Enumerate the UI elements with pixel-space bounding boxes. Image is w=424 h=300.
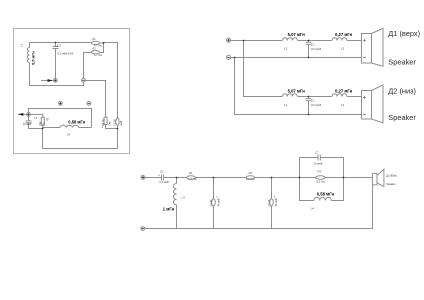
svg-text:L3: L3 (182, 196, 186, 200)
svg-text:L1: L1 (284, 103, 288, 107)
svg-text:Ом: Ом (39, 121, 42, 125)
svg-text:С3: С3 (57, 43, 61, 47)
svg-text:40 мкФ: 40 мкФ (274, 198, 278, 206)
svg-text:4,7 Ом: 4,7 Ом (94, 54, 102, 57)
svg-text:0,58 мГн: 0,58 мГн (317, 191, 335, 196)
svg-text:С3 40: С3 40 (267, 199, 271, 206)
svg-text:0,27 мГн: 0,27 мГн (335, 89, 353, 94)
svg-text:L4: L4 (311, 207, 315, 211)
svg-text:С1: С1 (311, 42, 315, 46)
svg-text:L2: L2 (341, 103, 345, 107)
svg-text:С7: С7 (315, 151, 319, 155)
svg-text:0,5 мГн: 0,5 мГн (32, 51, 36, 65)
svg-text:С5 20: С5 20 (113, 119, 117, 126)
svg-text:Д1 (верх): Д1 (верх) (388, 29, 420, 38)
svg-text:L2: L2 (341, 46, 345, 50)
svg-text:Ом: Ом (108, 122, 112, 126)
svg-text:С7: С7 (34, 116, 38, 120)
svg-text:3,9 Ом: 3,9 Ом (246, 177, 255, 181)
svg-text:13,3 мкФ: 13,3 мкФ (311, 47, 322, 51)
svg-text:10 мкФ: 10 мкФ (314, 162, 323, 166)
svg-text:4,7 Ом: 4,7 Ом (188, 177, 197, 181)
svg-text:R4 20: R4 20 (101, 119, 105, 126)
svg-text:5,07 мГн: 5,07 мГн (288, 32, 306, 37)
svg-text:мкФ: мкФ (119, 121, 123, 126)
svg-text:6,2 мкФ 63 В: 6,2 мкФ 63 В (58, 52, 74, 56)
svg-text:0,58 мГн: 0,58 мГн (68, 120, 85, 125)
svg-text:R3: R3 (46, 117, 49, 121)
svg-text:0,27 мГн: 0,27 мГн (335, 32, 353, 37)
svg-text:Speaker: Speaker (388, 113, 416, 122)
svg-text:1 мГн: 1 мГн (163, 206, 175, 211)
svg-text:С1: С1 (160, 170, 164, 174)
svg-text:10 мкФ: 10 мкФ (23, 122, 32, 126)
svg-text:Д2 (низ): Д2 (низ) (388, 86, 416, 95)
svg-text:5,07 мГн: 5,07 мГн (288, 89, 306, 94)
svg-text:R1: R1 (189, 171, 193, 175)
svg-text:L1: L1 (284, 46, 288, 50)
svg-text:8,2 Ом: 8,2 Ом (317, 179, 326, 183)
svg-text:Д3 (8Ом): Д3 (8Ом) (386, 175, 397, 178)
svg-text:L4: L4 (67, 132, 71, 136)
svg-text:С1: С1 (311, 99, 315, 103)
svg-text:L1: L1 (20, 43, 24, 47)
svg-text:6,2 мкФ: 6,2 мкФ (159, 180, 169, 184)
svg-text:Speaker: Speaker (388, 57, 416, 66)
svg-text:Speaker: Speaker (386, 183, 395, 186)
svg-text:R2: R2 (249, 171, 253, 175)
svg-text:R3: R3 (318, 170, 322, 174)
svg-text:С2 40: С2 40 (209, 199, 213, 206)
svg-text:40 мкФ: 40 мкФ (217, 198, 221, 206)
svg-text:13,3 мкФ: 13,3 мкФ (311, 103, 322, 107)
